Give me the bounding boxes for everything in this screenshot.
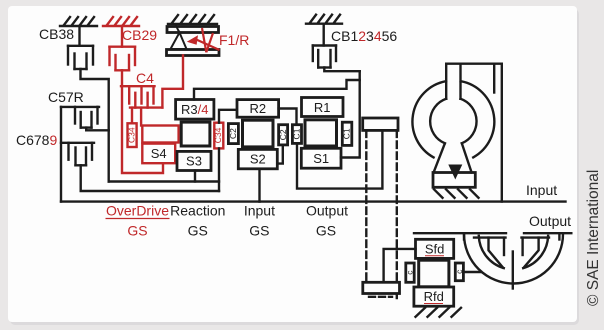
wire R3/4 to S1 top net	[194, 80, 360, 100]
svg-text:© SAE International: © SAE International	[585, 170, 602, 306]
ring gear Rfd	[414, 287, 454, 306]
brake CB123456	[313, 24, 336, 68]
clutch C4 (red comb)	[121, 86, 162, 125]
svg-text:R3/4: R3/4	[181, 102, 208, 117]
wire R2 to C1	[279, 109, 297, 125]
svg-text:Input: Input	[244, 203, 275, 219]
svg-text:GS: GS	[127, 223, 147, 239]
clutch C2 box left	[228, 124, 238, 144]
differential ring outer	[464, 234, 563, 284]
svg-text:S1: S1	[313, 151, 329, 166]
ground hatch Rfd	[416, 308, 462, 317]
clutch C2 box right	[279, 125, 288, 145]
svg-text:GS: GS	[249, 223, 269, 239]
svg-text:CB29: CB29	[122, 27, 157, 43]
svg-text:Sfd: Sfd	[425, 242, 445, 257]
chain flange top	[363, 118, 398, 130]
wire C1 to chain flange	[297, 130, 382, 188]
differential ring inner arcs	[479, 236, 504, 268]
svg-text:C4: C4	[136, 70, 154, 86]
wire Sfd to chain bottom flange	[384, 249, 416, 282]
svg-text:Reaction: Reaction	[170, 203, 225, 219]
ground hatch stator	[434, 189, 479, 198]
svg-text:C1: C1	[342, 128, 352, 139]
differential side gear right	[524, 238, 539, 268]
axle ticks	[463, 233, 465, 239]
torque converter stator funnel	[433, 173, 475, 188]
svg-text:Rfd: Rfd	[424, 289, 444, 304]
sun gear S1	[301, 148, 341, 168]
clutch C1 box right	[342, 122, 352, 145]
differential side gear left	[489, 238, 503, 268]
clutch C57R	[61, 107, 99, 128]
clutch C1 box left	[292, 125, 301, 144]
svg-text:C34: C34	[213, 127, 223, 143]
clutch C34 box right (red)	[214, 123, 223, 149]
sun gear S4 (red box)	[142, 144, 175, 164]
wire C34 down to line B	[218, 148, 220, 191]
svg-text:C57R: C57R	[48, 89, 84, 105]
wire CB29 down to S4 (red)	[122, 70, 163, 173]
wire C2 to S2	[277, 145, 283, 164]
clutch c box left final drive	[406, 263, 414, 282]
one-way clutch F1/R sprag triangle	[176, 25, 180, 34]
svg-text:C34: C34	[126, 127, 136, 143]
carrier OverDrive black	[181, 122, 210, 146]
svg-text:S2: S2	[250, 152, 266, 167]
svg-text:OverDrive: OverDrive	[106, 203, 169, 219]
ground hatch CB38	[60, 17, 97, 26]
one-way clutch F1/R race bottom	[167, 50, 220, 56]
brake CB38	[68, 26, 93, 69]
wire line A to S3	[109, 180, 219, 182]
clutch C6789	[61, 143, 94, 166]
svg-text:C2: C2	[228, 128, 238, 139]
ground hatch CB29 (red)	[103, 17, 139, 26]
wire c to differential	[463, 271, 481, 273]
svg-text:S3: S3	[186, 154, 202, 169]
ground hatch CB123456	[306, 15, 342, 24]
svg-text:GS: GS	[316, 223, 336, 239]
carrier Reaction	[243, 120, 274, 147]
svg-text:GS: GS	[188, 223, 208, 239]
svg-text:CB38: CB38	[39, 26, 74, 42]
one-way clutch F1/R race top	[167, 27, 219, 33]
ring gear R3/4	[176, 100, 214, 120]
carrier Output	[305, 120, 337, 146]
sun gear S3	[177, 151, 211, 170]
torque converter outer ring	[412, 81, 494, 157]
svg-text:R2: R2	[249, 101, 266, 116]
ring gear R2	[237, 100, 279, 118]
wire C57R to column	[86, 128, 109, 131]
wire CB38 to left column	[81, 69, 109, 182]
differential pinion shaft	[512, 252, 514, 289]
sun gear S2	[238, 149, 277, 168]
ring gear R1	[302, 98, 344, 117]
svg-text:CB123456: CB123456	[331, 28, 397, 44]
wire C6789 to line B	[81, 165, 219, 191]
output shaft line	[414, 232, 506, 234]
clutch C34 box left (red)	[128, 123, 137, 147]
svg-text:C6789: C6789	[16, 132, 57, 148]
wire F1/R to C4 (red)	[162, 56, 183, 108]
svg-text:S4: S4	[151, 146, 167, 161]
input shaft line	[61, 200, 566, 202]
ground hatch F1/R	[168, 15, 217, 24]
svg-text:F1/R: F1/R	[219, 32, 249, 48]
wire S2 to input shaft	[258, 169, 260, 202]
dashed stub under flange	[369, 296, 392, 298]
sun gear Sfd	[416, 239, 454, 258]
svg-text:Output: Output	[306, 203, 348, 219]
brake CB29	[110, 26, 136, 70]
chain dashed right	[396, 130, 398, 298]
svg-text:Output: Output	[529, 213, 571, 229]
svg-text:Input: Input	[526, 182, 557, 198]
svg-text:C1: C1	[292, 128, 302, 139]
carrier OverDrive (red)	[142, 126, 178, 143]
clutch c box right final drive	[455, 263, 463, 281]
chain flange bottom	[363, 282, 400, 293]
carrier final drive	[419, 260, 449, 287]
chain dashed left	[365, 130, 367, 283]
stator one-way triangle	[448, 165, 462, 180]
red arrow over F1/R	[194, 28, 220, 52]
differential side shafts	[474, 236, 506, 238]
torque converter hub stem	[446, 64, 502, 202]
wire C34 to R2	[219, 110, 238, 123]
wire CB123456 to net	[324, 68, 359, 72]
svg-text:R1: R1	[314, 100, 331, 115]
wire left vertical input	[60, 107, 62, 202]
svg-text:C2: C2	[278, 129, 288, 140]
